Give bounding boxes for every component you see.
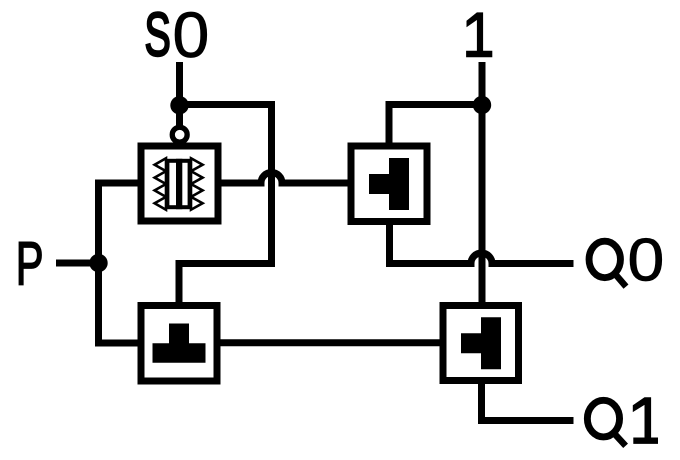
svg-text:P: P xyxy=(16,231,44,299)
svg-text:0: 0 xyxy=(173,0,210,71)
svg-text:S: S xyxy=(144,0,170,69)
svg-text:0: 0 xyxy=(628,227,665,294)
